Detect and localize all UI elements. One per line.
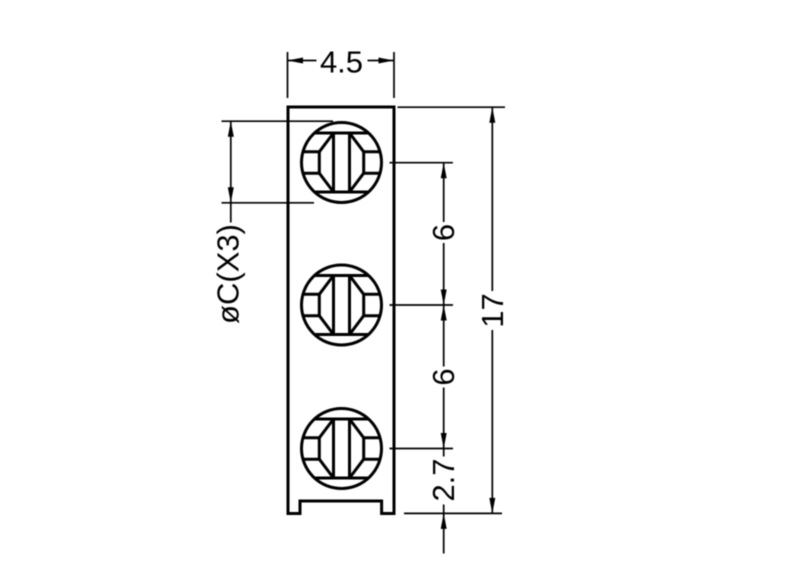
svg-text:6: 6 [426, 224, 461, 241]
clamp screw hole 3 (bottom) [302, 409, 382, 489]
svg-text:4.5: 4.5 [320, 45, 363, 80]
clamp screw hole 2 (middle) [302, 265, 382, 345]
arrow right [379, 58, 395, 64]
arrow down [489, 498, 495, 514]
svg-text:øC(X3): øC(X3) [211, 224, 246, 324]
clamp screw hole 1 (top) [302, 123, 382, 203]
extension line, dimension line and outside tail [404, 449, 502, 554]
extension line and dimension line [398, 107, 506, 513]
arrow down [441, 290, 447, 306]
diameter dimension oC(X3) (left, hole diameter) [211, 121, 334, 324]
terminal block body outline with bottom feet [288, 107, 394, 514]
arrow left [288, 58, 304, 64]
extension lines and dimension line [222, 121, 334, 222]
arrow up [228, 121, 234, 137]
dimension 17 (overall height, right) [398, 107, 510, 513]
arrow down [228, 187, 234, 203]
arrow up (outside, below bottom line) [441, 513, 447, 529]
dimension 6 (hole 1 to hole 2 pitch) [390, 163, 462, 305]
extension line and dimension line [390, 305, 454, 449]
svg-text:17: 17 [475, 293, 510, 327]
extension lines and dimension line 4.5 [288, 52, 395, 98]
dimension 4.5 (top width) [288, 45, 395, 99]
dimension 6 (hole 2 to hole 3 pitch) [390, 305, 462, 449]
svg-text:2.7: 2.7 [426, 458, 461, 501]
extension lines and dimension line [390, 163, 454, 305]
arrow up [441, 305, 447, 321]
svg-text:6: 6 [426, 368, 461, 385]
arrow up [489, 107, 495, 123]
arrow down [441, 433, 447, 449]
arrow up [441, 163, 447, 179]
dimension 2.7 (hole 3 to bottom) [404, 449, 502, 554]
